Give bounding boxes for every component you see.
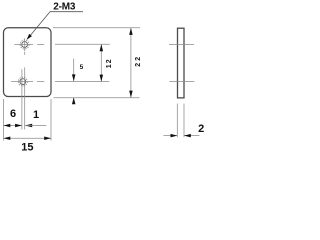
- dimension 15 arrow left: [4, 136, 11, 140]
- svg-text:12: 12: [106, 59, 113, 68]
- dimension 22 line: [130, 28, 132, 98]
- dimension 12 arrow up: [100, 44, 104, 51]
- dimension 1 arrow left-pointing at line B: [25, 124, 33, 128]
- svg-text:2-M3: 2-M3: [53, 1, 76, 12]
- extension line top edge right: [53, 27, 140, 29]
- dimension 1 tail line: [25, 125, 47, 127]
- leader 2-M3 arrowhead: [27, 34, 32, 40]
- dimension 2 arrow left-pointing: [184, 134, 191, 138]
- dimension 2 line left: [164, 135, 178, 137]
- leader 2-M3 slant: [29, 12, 50, 37]
- hole H2 inner circle: [20, 79, 26, 85]
- side view centerline bottom hole: [169, 81, 194, 83]
- leader 2-M3 shoulder: [50, 11, 83, 13]
- extension line bottom edge right: [54, 97, 140, 99]
- centerline H1 vertical (line B): [24, 38, 26, 129]
- dimension 22 arrow down: [129, 91, 133, 98]
- dimension 6 arrow right: [15, 124, 22, 128]
- hole H1 (top M3 tap) outer thread circle: [20, 40, 29, 49]
- centerline H2 horizontal: [11, 81, 44, 83]
- extension line bottom right (x=51): [50, 99, 52, 141]
- svg-text:1: 1: [33, 109, 39, 121]
- dimension 15 arrow right: [44, 136, 51, 140]
- centerline H2 vertical (line A): [21, 69, 23, 129]
- dimension 22 arrow up: [129, 28, 133, 35]
- extension line bottom left (x=3.5): [3, 99, 5, 141]
- dimension 5 line: [73, 59, 75, 104]
- side view centerline top hole: [169, 43, 194, 45]
- dimension 2 arrow right-pointing: [171, 134, 178, 138]
- centerline H1 horizontal: [14, 43, 44, 45]
- hole H2 (bottom M3 tap) outer thread circle: [18, 77, 27, 86]
- plate front view outline: [4, 28, 52, 97]
- svg-text:2: 2: [198, 123, 204, 135]
- hole H1 inner circle: [22, 42, 28, 48]
- dimension 5 arrow down: [72, 74, 76, 81]
- dimension 5 arrow up: [72, 97, 76, 104]
- side view outline: [178, 28, 185, 98]
- dimension 6 line: [4, 125, 22, 127]
- centerline H2 horizontal extension right: [55, 81, 109, 83]
- svg-text:6: 6: [10, 108, 16, 120]
- dimension 12 line: [100, 44, 102, 81]
- dimension 2 extension lines: [177, 104, 184, 138]
- svg-text:5: 5: [80, 64, 84, 71]
- centerline H1 horizontal extension right: [55, 43, 110, 45]
- dimension 12 arrow down: [100, 75, 104, 82]
- dimension 15 line: [4, 137, 52, 139]
- dimension 6 arrow left: [4, 124, 11, 128]
- svg-text:15: 15: [21, 142, 33, 153]
- dimension 2 line right: [184, 135, 200, 137]
